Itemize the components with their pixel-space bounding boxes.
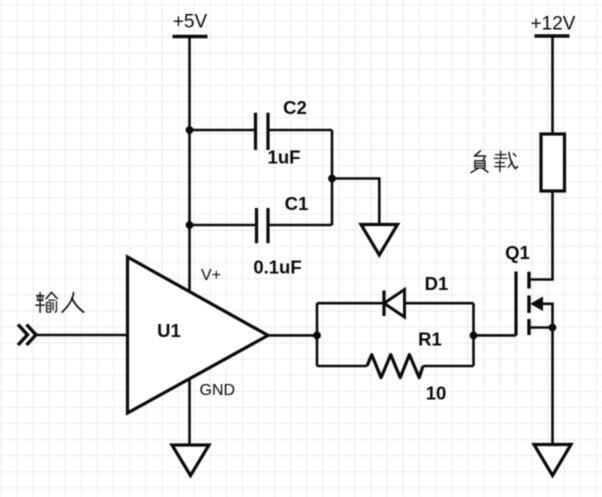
wire input <box>34 334 128 337</box>
ground (source) <box>534 445 571 476</box>
node +5V/C1 <box>186 221 194 229</box>
输 right part <box>46 292 57 298</box>
wire D1 anode lead <box>317 302 384 305</box>
node gate <box>470 332 478 340</box>
wire C1 left lead <box>190 224 257 227</box>
svg-text:+5V: +5V <box>173 12 208 33</box>
svg-text:0.1uF: 0.1uF <box>253 257 301 278</box>
capacitor C2 plates <box>256 113 269 150</box>
wire C1 right lead <box>268 224 332 227</box>
wire D1/R1 loop right vertical <box>472 303 475 366</box>
svg-text:GND: GND <box>200 382 236 399</box>
负 <box>475 151 486 161</box>
wire Q1 drain lead <box>529 191 553 280</box>
svg-text:R1: R1 <box>418 329 442 350</box>
resistor R1 zigzag <box>367 355 423 378</box>
resistor 负载 load box <box>541 134 565 191</box>
wire D1 cathode lead <box>405 302 474 305</box>
wire C2 left lead <box>190 129 256 132</box>
transistor Q1 channel dashes <box>527 272 530 335</box>
ground (op-amp) <box>172 445 209 476</box>
ground (capacitors) <box>361 225 398 256</box>
transistor Q1 body arrow <box>531 297 542 310</box>
node cap ground branch <box>328 175 336 183</box>
wire R1 left lead <box>317 365 367 368</box>
node source <box>549 324 557 332</box>
op-amp U1 <box>128 257 269 413</box>
wire R1 right lead <box>423 365 474 368</box>
wire +5V vertical to op-amp V+ pin <box>188 37 191 292</box>
node junction dots <box>186 126 557 339</box>
node op-amp output <box>313 332 321 340</box>
wire Q1 body to source <box>542 304 553 328</box>
svg-text:1uF: 1uF <box>268 147 301 168</box>
diode D1 <box>384 290 405 318</box>
wire right vertical C2-C1 <box>331 130 334 225</box>
wire op-amp output <box>268 334 317 337</box>
svg-text:V+: V+ <box>201 267 221 284</box>
capacitor C1 plates <box>257 208 269 243</box>
wire Q1 source lead <box>529 326 553 329</box>
label 输入 (input, hand-drawn glyphs) <box>36 292 84 312</box>
svg-text:C2: C2 <box>283 97 307 118</box>
svg-text:U1: U1 <box>157 320 181 341</box>
wire +12V vertical to load <box>551 36 554 134</box>
node +5V/C2 <box>186 126 194 134</box>
入 <box>62 293 73 312</box>
svg-text:+12V: +12V <box>531 13 576 34</box>
wire to MOSFET gate <box>474 334 517 337</box>
wire to capacitor ground <box>332 179 379 225</box>
svg-text:C1: C1 <box>285 193 309 214</box>
transistor Q1 gate bar <box>514 272 517 336</box>
svg-text:Q1: Q1 <box>505 242 530 263</box>
wire C2 right lead <box>268 129 332 132</box>
wire GND pin of op-amp <box>188 379 191 445</box>
svg-text:10: 10 <box>426 383 447 404</box>
label 负载 (load, hand-drawn glyphs) <box>471 151 518 173</box>
wire D1/R1 loop left vertical <box>316 303 319 366</box>
power +12V rail bar <box>535 34 570 37</box>
input connector chevrons <box>18 325 36 346</box>
wire Q1 source to ground <box>551 328 554 445</box>
svg-text:D1: D1 <box>425 273 449 294</box>
输 left radical <box>36 293 45 313</box>
power +5V rail bar <box>173 35 208 38</box>
载 <box>494 151 507 158</box>
